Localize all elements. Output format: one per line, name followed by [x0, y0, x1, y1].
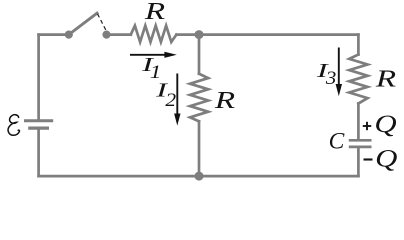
svg-text:R: R	[214, 87, 236, 114]
svg-text:Q: Q	[374, 110, 396, 138]
svg-text:C: C	[329, 129, 345, 155]
svg-text:2: 2	[165, 90, 176, 111]
svg-text:R: R	[375, 66, 397, 93]
svg-text:R: R	[144, 0, 166, 25]
svg-text:3: 3	[325, 68, 337, 89]
svg-text:Q: Q	[375, 145, 397, 173]
